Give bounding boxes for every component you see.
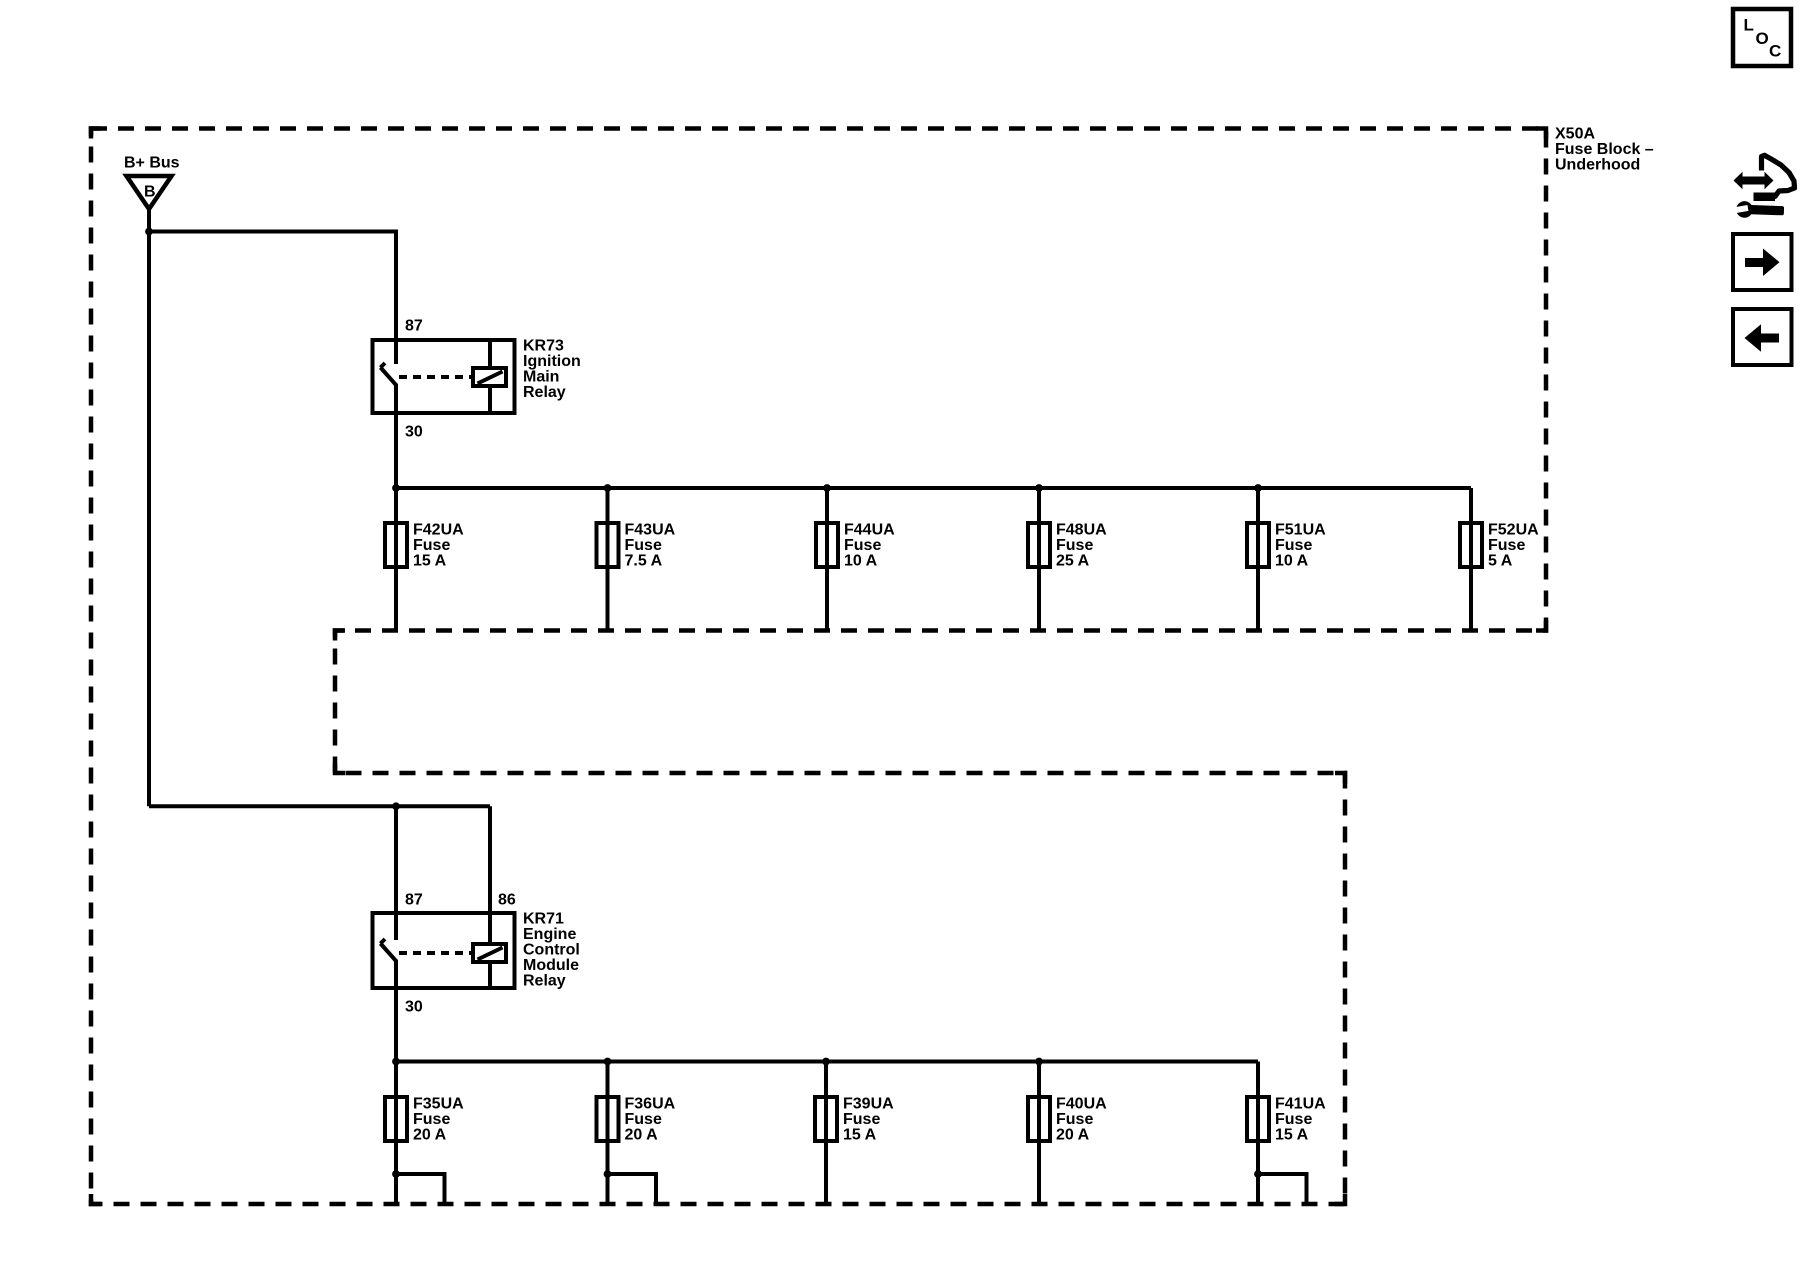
fuse F39UA label — [843, 1096, 894, 1144]
svg-text:87: 87 — [405, 892, 423, 909]
svg-text:O: O — [1756, 29, 1769, 48]
wire fuse bus 1 — [396, 486, 1471, 490]
svg-text:30: 30 — [405, 999, 423, 1016]
node junction at F41UA connector — [1254, 1170, 1262, 1178]
fuse F42UA — [385, 488, 407, 631]
node junction at relay KR71 pin 87 tap — [392, 802, 400, 810]
vehicle service icon (double arrow, car outline, wrench) — [1734, 155, 1795, 219]
svg-text:30: 30 — [405, 424, 423, 441]
fuse F35UA — [385, 1062, 407, 1206]
connector stub at F35UA — [396, 1174, 445, 1206]
relay KR73 label — [523, 338, 581, 402]
B+ Bus label — [124, 155, 180, 172]
fuse F48UA label — [1056, 522, 1107, 570]
fuse F44UA — [816, 488, 838, 631]
relay KR71 label — [523, 911, 580, 990]
fuse F51UA label — [1275, 522, 1326, 570]
connector stub at F36UA — [608, 1174, 657, 1206]
wire B+ main vertical — [147, 209, 151, 806]
relay KR71 — [373, 913, 515, 988]
fuse F36UA — [597, 1062, 619, 1206]
pin 87 label (KR71) — [405, 892, 423, 909]
LOC reference box icon — [1733, 9, 1791, 66]
wire B+ branch to relay KR73 pin 87 — [149, 232, 396, 365]
node junction at B+ branch — [145, 228, 153, 236]
svg-text:B: B — [144, 184, 156, 201]
fuse F40UA label — [1056, 1096, 1107, 1144]
fuse F44UA label — [844, 522, 895, 570]
svg-text:L: L — [1744, 16, 1754, 35]
forward page arrow icon — [1733, 234, 1792, 290]
svg-text:86: 86 — [498, 892, 516, 909]
node junction at F35UA connector — [392, 1170, 400, 1178]
fuse F52UA — [1460, 488, 1482, 631]
fuse F36UA label — [625, 1096, 676, 1144]
pin 86 label (KR71) — [498, 892, 516, 909]
wire relay KR71 pin 30 to fuse bus 2 — [394, 960, 398, 1062]
fuse F42UA label — [413, 522, 464, 570]
power symbol B+ triangle — [127, 176, 172, 209]
fuse F48UA — [1028, 488, 1050, 631]
fuse F40UA — [1028, 1062, 1050, 1205]
fuse F41UA — [1247, 1062, 1269, 1206]
wire relay KR73 pin 30 to fuse bus 1 — [394, 384, 398, 488]
back page arrow icon — [1733, 309, 1792, 365]
wire B+ branch 2 horizontal — [149, 804, 490, 808]
node taps on fuse bus 1 — [392, 484, 1262, 492]
fuse F43UA — [597, 488, 619, 631]
fuse F43UA label — [625, 522, 676, 570]
fuse block boundary X50A (dashed outline) — [91, 129, 1546, 1205]
relay KR73 — [373, 340, 515, 413]
node junction at F36UA connector — [604, 1170, 612, 1178]
svg-text:C: C — [1769, 42, 1781, 61]
wire relay KR71 pin 86 — [488, 806, 492, 913]
pin 30 label (KR71) — [405, 999, 423, 1016]
wire relay KR71 pin 87 — [394, 806, 398, 940]
connector stub at F41UA — [1258, 1174, 1307, 1206]
X50A Fuse Block – Underhood label — [1555, 126, 1654, 174]
wire fuse bus 2 — [396, 1060, 1258, 1064]
svg-text:87: 87 — [405, 318, 423, 335]
node taps on fuse bus 2 — [392, 1058, 1043, 1066]
fuse F51UA — [1247, 488, 1269, 631]
fuse F39UA — [815, 1062, 837, 1205]
pin 30 label (KR73) — [405, 424, 423, 441]
fuse F41UA label — [1275, 1096, 1326, 1144]
svg-text:B+ Bus: B+ Bus — [124, 155, 180, 172]
fuse F52UA label — [1488, 522, 1539, 570]
fuse F35UA label — [413, 1096, 464, 1144]
pin 87 label (KR73) — [405, 318, 423, 335]
